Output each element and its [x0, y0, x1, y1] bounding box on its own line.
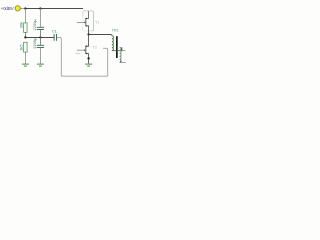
ground GND3: [85, 64, 92, 66]
transformer core: [116, 36, 118, 58]
svg-text:TR1: TR1: [112, 28, 119, 32]
wire C2 bottom lead: [39, 30, 41, 38]
svg-text:30k: 30k: [18, 22, 23, 28]
transformer secondary pin 2 lead: [120, 61, 126, 63]
wire C2 top lead: [39, 9, 41, 27]
wire C3 top lead: [39, 37, 41, 45]
junction D (mid, C): [39, 36, 41, 38]
transformer TR1 secondary winding: [120, 47, 122, 62]
capacitor C3 plates: [37, 45, 44, 47]
wire R1 bottom lead: [24, 32, 26, 37]
junction E (midpoint): [87, 33, 89, 35]
junction B (top, C2): [39, 7, 41, 9]
svg-text:+0dBV: +0dBV: [1, 6, 15, 11]
wire route C1 to T2 gate (around bottom): [57, 37, 108, 76]
transistor T2: [77, 34, 89, 63]
transformer secondary pin 1 tick: [121, 47, 123, 50]
wire midpoint to TR1: [89, 34, 112, 36]
wire R2 bottom lead: [24, 52, 26, 64]
svg-text:2200µ: 2200µ: [32, 19, 37, 31]
svg-text:T2: T2: [92, 46, 96, 50]
ground GND1: [22, 64, 29, 66]
transformer secondary pin 1 lead: [122, 50, 126, 52]
transformer TR1 primary winding: [111, 35, 113, 51]
svg-text:2200µ: 2200µ: [32, 37, 37, 49]
svg-text:1k5: 1k5: [18, 44, 23, 51]
junction C (mid, R): [24, 36, 26, 38]
transformer primary bottom lead: [112, 50, 122, 52]
transistor T1 envelope: [83, 11, 94, 31]
capacitor C1 plates: [54, 34, 56, 41]
junction A (top, R1): [24, 7, 26, 9]
svg-text:T1: T1: [95, 20, 99, 24]
svg-text:C1: C1: [52, 29, 57, 33]
port P1: [15, 6, 25, 11]
wire top rail: [25, 8, 83, 10]
transformer secondary pin 2 tick: [120, 61, 122, 63]
wire mid rail: [25, 37, 54, 39]
ground GND2: [37, 64, 44, 66]
resistor R2: [24, 42, 28, 52]
junction F (T2 source): [87, 57, 89, 59]
wire T2 source stub ghost: [76, 52, 81, 54]
wire C3 bottom lead: [39, 48, 41, 64]
resistor R1: [24, 23, 28, 33]
wire R1 top lead: [24, 9, 26, 24]
transistor T1: [77, 11, 89, 34]
capacitor C2 plates: [37, 27, 44, 29]
